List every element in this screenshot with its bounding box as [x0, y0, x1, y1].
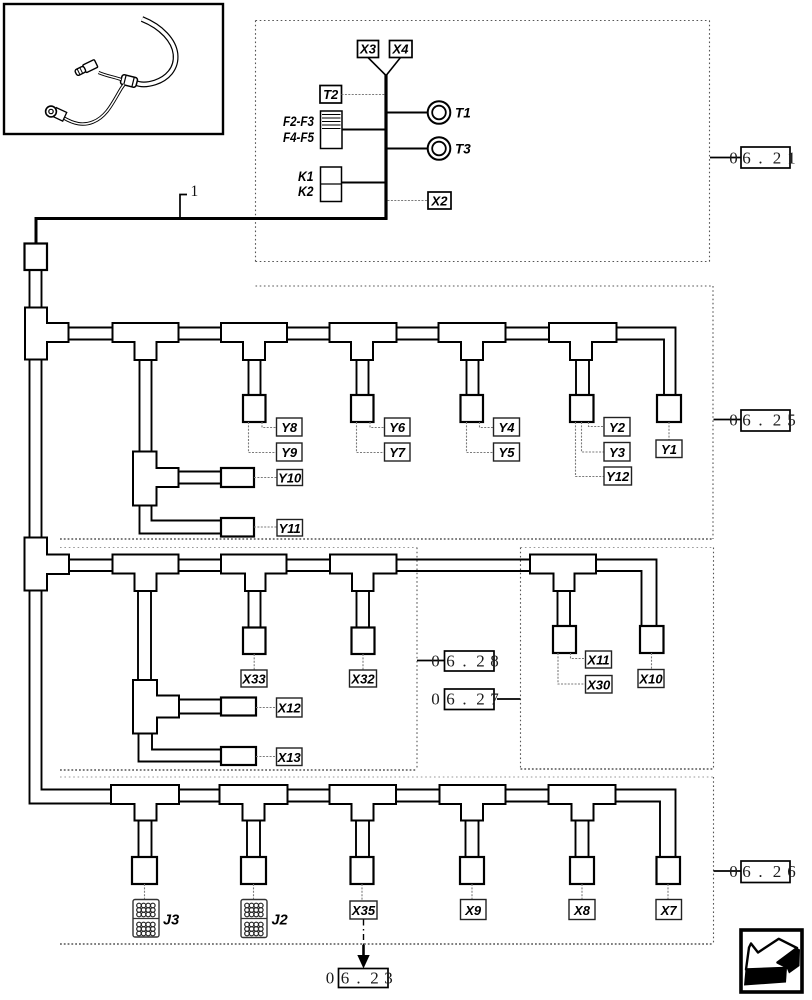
label X7 — [656, 900, 682, 920]
svg-text:8: 8 — [490, 652, 499, 671]
tee junction left section 2 — [25, 308, 69, 360]
svg-text:.: . — [462, 652, 466, 671]
tee junction bus T2 section 3 — [221, 555, 287, 592]
svg-text:X32: X32 — [350, 672, 375, 687]
svg-text:X11: X11 — [586, 653, 609, 668]
svg-text:Y12: Y12 — [606, 469, 630, 484]
svg-text:2: 2 — [370, 969, 379, 988]
trunk tube section3 to section4 elbow — [30, 591, 113, 804]
reference 06.25 — [714, 419, 742, 421]
wire to label X12 — [256, 707, 277, 709]
svg-text:X9: X9 — [464, 903, 482, 918]
svg-text:Y9: Y9 — [281, 445, 298, 460]
wire to label Y6 — [370, 422, 385, 428]
svg-text:3: 3 — [384, 969, 393, 988]
tee junction bus T3 section 3 — [330, 555, 397, 592]
dashed box section 3b — [521, 548, 714, 770]
wire X2 to bus — [388, 200, 429, 202]
label X13 — [277, 748, 303, 766]
dash-dot arrow X35 to 06.23 — [363, 920, 365, 949]
tee junction bus T5 section 2 — [549, 323, 617, 360]
svg-text:2: 2 — [476, 690, 485, 709]
wire to label Y7 — [357, 422, 385, 453]
wire to label X35 — [361, 884, 363, 901]
elbow tube to Y1 — [617, 328, 676, 396]
photo frame box top-left — [4, 4, 223, 134]
label X32 — [350, 670, 377, 687]
svg-text:.: . — [462, 690, 466, 709]
label Y8 — [277, 418, 303, 436]
wire to label X8 — [581, 884, 583, 900]
connector body J3 — [132, 857, 157, 884]
svg-text:6: 6 — [742, 149, 751, 168]
plug J3 — [133, 900, 159, 938]
connector body J2 — [241, 857, 266, 884]
wire fuse block to bus — [342, 129, 385, 131]
connector X4 — [390, 41, 413, 58]
label Y12 — [604, 467, 632, 485]
harness trunk top line — [35, 217, 388, 220]
svg-text:2: 2 — [773, 149, 782, 168]
elbow tube to Y11 — [140, 506, 222, 534]
wire to label X30 — [558, 653, 586, 684]
bus tube segments section 4 — [179, 790, 549, 802]
wire T1 to bus — [388, 112, 428, 114]
wire to label X13 — [256, 756, 277, 758]
svg-text:2: 2 — [773, 411, 782, 430]
harness callout 1 tick — [180, 195, 187, 219]
elbow tube to X7 — [616, 790, 676, 858]
svg-text:F4-F5: F4-F5 — [283, 130, 314, 145]
nav icon arrow shadow band — [744, 968, 787, 986]
drop tube T3 section 2 — [356, 360, 358, 395]
svg-text:5: 5 — [787, 411, 796, 430]
inner tee X12/X13 — [133, 680, 179, 734]
label Y6 — [385, 418, 411, 436]
tee junction bus T3 section 2 — [330, 323, 397, 360]
wire to label Y3 — [582, 422, 605, 452]
plug J2 — [241, 900, 267, 938]
svg-text:0: 0 — [729, 411, 738, 430]
svg-text:K1: K1 — [298, 169, 314, 184]
tee junction bus T1 section 4 — [111, 785, 179, 821]
svg-text:6: 6 — [446, 652, 455, 671]
label Y11 — [277, 520, 303, 537]
label Y4 — [494, 418, 520, 436]
nav icon arrow tail — [776, 939, 800, 974]
svg-text:6: 6 — [341, 969, 350, 988]
valve body Y6/Y7 — [351, 395, 374, 422]
relay block K1/K2 — [321, 167, 342, 202]
svg-text:X2: X2 — [431, 194, 449, 209]
tee junction bus T3 section 4 — [330, 785, 397, 821]
drop tube T5 section 2 — [575, 360, 577, 395]
svg-text:6: 6 — [787, 862, 796, 881]
label X12 — [277, 698, 303, 717]
dashed box section 1 (top) — [256, 21, 710, 262]
svg-text:F2-F3: F2-F3 — [283, 114, 314, 129]
connector body X12 — [221, 698, 256, 716]
valve body Y11 — [221, 518, 254, 537]
wire to label Y10 — [254, 477, 277, 479]
svg-text:0: 0 — [729, 862, 738, 881]
drop tubes section 4 — [139, 821, 589, 858]
wire to label Y5 — [467, 422, 494, 453]
sensor T1 — [428, 101, 451, 124]
label Y1 — [656, 440, 682, 458]
wire to ring terminal (photo) — [63, 85, 124, 125]
connector T2 — [320, 86, 342, 104]
connector X2 — [428, 192, 451, 209]
wire to label Y9 — [249, 422, 277, 453]
valve body Y10 — [221, 468, 254, 487]
label X33 — [241, 670, 267, 687]
svg-text:6: 6 — [742, 411, 751, 430]
wire to label Y2 — [589, 422, 605, 427]
svg-text:X12: X12 — [277, 701, 302, 716]
svg-text:Y7: Y7 — [389, 445, 406, 460]
ring terminal (photo) — [52, 108, 66, 121]
fuse block F2-F3/F4-F5 — [321, 111, 343, 149]
svg-text:Y10: Y10 — [278, 471, 302, 486]
wire to label X10 — [651, 653, 653, 670]
tee junction bus T4 section 4 — [440, 785, 506, 821]
svg-text:1: 1 — [787, 149, 796, 168]
label X8 — [569, 900, 595, 920]
reference 06.28 — [417, 660, 445, 662]
tee junction bus T1 section 3 — [113, 555, 179, 592]
wire T2 to bus — [342, 94, 385, 96]
connector body X32 — [352, 628, 375, 655]
wire to label X9 — [471, 884, 473, 900]
label Y3 — [604, 443, 630, 462]
valve body Y1 — [657, 395, 681, 422]
wire to label Y1 — [668, 422, 670, 440]
svg-text:.: . — [758, 411, 762, 430]
svg-text:2: 2 — [773, 862, 782, 881]
svg-text:1: 1 — [191, 183, 199, 200]
elbow tube to X10 — [596, 560, 657, 627]
label X11 — [586, 651, 612, 668]
bus tube segments section 2 — [69, 328, 550, 340]
svg-text:T2: T2 — [323, 87, 339, 102]
trunk tube to tee — [29, 270, 31, 308]
nav icon box bottom-right — [741, 930, 802, 992]
svg-text:Y4: Y4 — [499, 420, 516, 435]
tee junction bus T1 section 2 — [113, 323, 179, 360]
tee junction bus T2 section 2 — [221, 323, 287, 360]
vertical bus line section 1 — [384, 75, 387, 220]
svg-text:Y6: Y6 — [389, 420, 406, 435]
svg-text:J3: J3 — [163, 913, 179, 929]
connector body X8 — [570, 857, 594, 884]
drop tube T4 section 2 — [466, 360, 468, 395]
connector body X9 — [460, 857, 484, 884]
connector body X33 — [243, 628, 266, 655]
tee junction bus T2 section 4 — [220, 785, 288, 821]
trunk tube section2 to section3 — [29, 360, 31, 538]
svg-text:K2: K2 — [298, 184, 314, 199]
trunk drop to connector — [35, 219, 38, 244]
tube to X12 — [179, 699, 221, 701]
tube to Y10 — [179, 471, 222, 473]
label X35 — [350, 901, 377, 919]
dashed box section 3a — [60, 548, 417, 771]
svg-text:X35: X35 — [351, 903, 376, 918]
label Y10 — [277, 470, 303, 486]
wire to label Y11 — [254, 526, 277, 528]
svg-text:6: 6 — [446, 690, 455, 709]
connector body X11/X30 — [553, 626, 576, 653]
svg-text:Y5: Y5 — [499, 445, 516, 460]
svg-text:X4: X4 — [392, 42, 410, 57]
svg-text:T1: T1 — [455, 106, 471, 121]
wire to label Y12 — [576, 422, 605, 477]
wire to J2 plug — [253, 884, 255, 900]
drop tube section 3b — [557, 591, 559, 626]
label Y7 — [385, 443, 411, 461]
reference 06.26 — [714, 870, 742, 872]
connector body X35 — [351, 857, 374, 884]
wire T3 to bus — [388, 148, 428, 150]
svg-text:Y11: Y11 — [279, 521, 301, 536]
svg-text:T3: T3 — [455, 142, 471, 157]
svg-text:X7: X7 — [660, 903, 678, 918]
cable main loop (photo) — [135, 19, 176, 84]
svg-text:J2: J2 — [272, 913, 288, 929]
connector X3 — [358, 41, 379, 58]
nav icon white arrow — [746, 939, 797, 970]
svg-text:.: . — [758, 149, 762, 168]
cable inline connector (photo) — [120, 74, 138, 88]
dashed box section 2 — [60, 286, 713, 539]
svg-text:.: . — [758, 862, 762, 881]
valve body Y8/Y9 — [243, 395, 266, 422]
tee junction bus T4 section 2 — [439, 323, 506, 360]
inner tee Y10/Y11 — [133, 452, 179, 506]
svg-text:X33: X33 — [241, 672, 266, 687]
drop tube T1 section 3 — [137, 591, 139, 680]
label Y5 — [494, 443, 520, 461]
drop tube T1 section 2 — [139, 360, 141, 452]
drop tube T2 section 2 — [248, 360, 250, 395]
label X9 — [461, 900, 487, 920]
dashed box section 4 — [60, 777, 714, 944]
valve body Y4/Y5 — [461, 395, 484, 422]
label X10 — [638, 670, 664, 688]
trunk connector block — [25, 244, 48, 271]
bus tube segments section 3 — [69, 560, 530, 572]
svg-text:X30: X30 — [586, 678, 611, 693]
tee junction bus T5 section 4 — [549, 785, 616, 821]
valve body Y2/Y3/Y12 — [570, 395, 594, 422]
label Y9 — [277, 443, 303, 461]
sensor T3 — [428, 137, 451, 160]
svg-text:0: 0 — [326, 969, 335, 988]
wire relay block to bus — [342, 182, 385, 184]
wire to label X33 — [253, 654, 255, 670]
svg-text:X8: X8 — [573, 903, 591, 918]
wire X3 to bus — [368, 58, 386, 76]
svg-text:0: 0 — [431, 652, 440, 671]
drop tube T3 section 3 — [356, 591, 358, 628]
svg-text:Y1: Y1 — [661, 442, 677, 457]
svg-text:Y3: Y3 — [609, 445, 626, 460]
svg-text:X13: X13 — [277, 750, 302, 765]
tee junction left section 3 — [25, 538, 70, 591]
svg-text:X10: X10 — [638, 672, 663, 687]
wire to J3 plug — [144, 884, 146, 900]
svg-text:X3: X3 — [359, 42, 377, 57]
connector body X10 — [640, 626, 664, 653]
wire to label Y4 — [480, 422, 494, 428]
elbow tube to X13 — [139, 734, 222, 762]
svg-text:Y2: Y2 — [609, 420, 626, 435]
reference 06.21 — [710, 157, 741, 159]
wire to label X11 — [571, 653, 586, 659]
label Y2 — [604, 418, 630, 437]
svg-text:2: 2 — [476, 652, 485, 671]
svg-text:Y8: Y8 — [281, 420, 298, 435]
svg-text:0: 0 — [729, 149, 738, 168]
label X30 — [586, 676, 613, 694]
tee junction section 3b — [530, 555, 596, 592]
wire to label Y8 — [262, 422, 277, 428]
wire to label X32 — [362, 654, 364, 670]
wire to pin terminal (photo) — [99, 73, 122, 80]
connector body X7 — [657, 857, 681, 884]
connector body X13 — [221, 747, 256, 765]
wire X4 to bus — [387, 58, 401, 76]
drop tube T2 section 3 — [248, 591, 250, 628]
svg-text:0: 0 — [431, 690, 440, 709]
svg-text:6: 6 — [742, 862, 751, 881]
svg-text:.: . — [356, 969, 360, 988]
pin terminal (photo) — [74, 59, 98, 77]
wire to label X7 — [667, 884, 669, 900]
